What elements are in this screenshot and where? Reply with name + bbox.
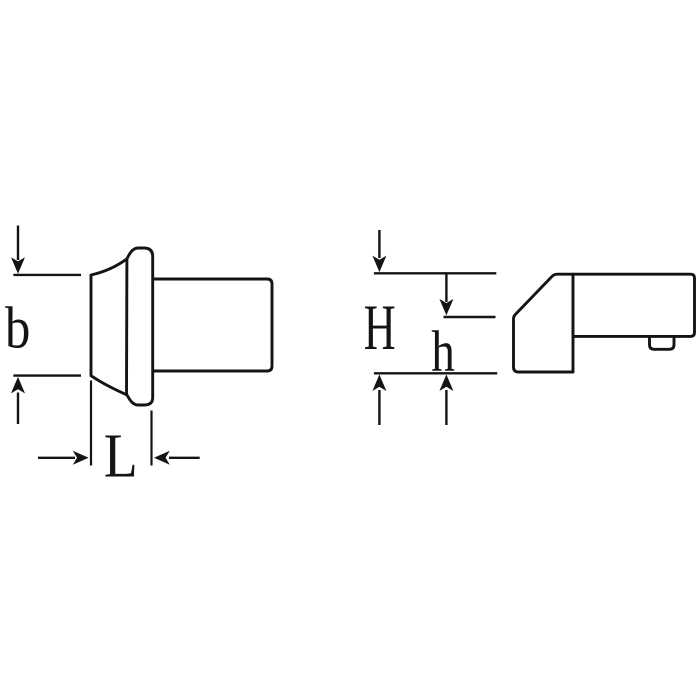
front view: drive shaft body [150, 279, 272, 371]
dimension L: left extension line [90, 381, 92, 466]
dimension H: top dimension line [374, 272, 496, 274]
dimension L: right arrow [154, 451, 200, 465]
dimension L: left arrow [38, 451, 89, 465]
svg-text:L: L [104, 420, 138, 490]
side view: body bottom edge across nub [648, 335, 676, 338]
dimension H: top down arrow [372, 230, 386, 272]
front view: flared collar outline [91, 248, 153, 405]
dimension b: bottom up arrow [11, 377, 25, 424]
dimension h: top down arrow [439, 273, 453, 315]
dimension b: top down arrow [11, 226, 25, 274]
side view: long body with bottom nub [573, 274, 695, 349]
side view: front wedge block [514, 274, 574, 372]
dimension H: bottom up arrow [372, 375, 386, 426]
front view: collar crease line [125, 259, 128, 395]
dimension L: right extension line [150, 411, 152, 466]
svg-text:h: h [431, 320, 455, 383]
dimension b: top dimension line [13, 274, 81, 276]
svg-text:H: H [364, 293, 396, 364]
dimension b: bottom dimension line [13, 374, 81, 376]
svg-text:b: b [5, 295, 30, 360]
dimension H: bottom dimension line [374, 372, 497, 374]
dimension h: bottom up arrow [439, 375, 453, 426]
dimension h: top dimension line [444, 316, 496, 318]
